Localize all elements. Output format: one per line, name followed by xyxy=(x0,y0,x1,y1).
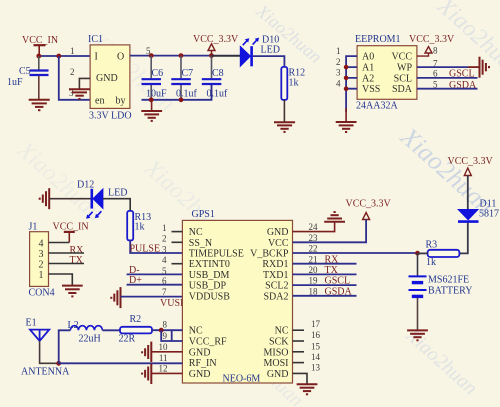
svg-text:12: 12 xyxy=(159,364,168,374)
inductor L2 xyxy=(68,320,103,345)
svg-text:5: 5 xyxy=(162,266,167,276)
svg-text:6: 6 xyxy=(162,276,167,286)
junction C8/VCC top xyxy=(209,53,214,58)
svg-text:LED: LED xyxy=(261,45,280,56)
wire C5 top lead xyxy=(38,56,40,70)
svg-text:SCK: SCK xyxy=(269,337,289,348)
svg-text:C8: C8 xyxy=(212,68,224,79)
svg-text:0.1uf: 0.1uf xyxy=(176,89,198,100)
stub pin2 SS_N xyxy=(172,241,183,243)
junction pin8 xyxy=(159,328,164,333)
capacitor C8 xyxy=(202,56,228,100)
svg-text:22R: 22R xyxy=(119,334,136,345)
svg-text:en: en xyxy=(95,96,104,107)
wire pin13 GND to ground xyxy=(293,373,308,384)
capacitor C7 xyxy=(171,56,197,100)
svg-text:GND: GND xyxy=(189,369,211,380)
wire pin22 V_BCKP xyxy=(293,252,418,254)
wire WP to ground xyxy=(417,66,468,68)
svg-text:GND: GND xyxy=(267,227,289,238)
svg-text:TXD1: TXD1 xyxy=(263,270,289,281)
wire D12 to R13 xyxy=(103,199,130,211)
svg-text:VCC_3.3V: VCC_3.3V xyxy=(409,34,455,45)
svg-text:L2: L2 xyxy=(68,320,79,331)
svg-text:3: 3 xyxy=(336,68,341,78)
SECTION TOPRIGHT xyxy=(212,34,490,132)
wire pin23 VCC xyxy=(293,220,367,243)
SECTION TOPLEFT xyxy=(7,34,240,122)
svg-text:WP: WP xyxy=(397,63,412,74)
svg-text:C6: C6 xyxy=(152,68,164,79)
ground WP sideways xyxy=(480,57,490,78)
wire RF_IN pin11 xyxy=(59,362,183,364)
wire D- to pin5 xyxy=(127,273,183,275)
gps module GPS1 xyxy=(182,209,292,385)
SECTION RIGHT xyxy=(293,156,500,340)
svg-text:CON4: CON4 xyxy=(29,288,55,299)
pin numbers GPS right bottom xyxy=(311,319,321,372)
ground J1 xyxy=(62,286,83,297)
wire pin18 SDA2 xyxy=(293,295,357,297)
svg-text:1: 1 xyxy=(39,270,44,281)
svg-text:2: 2 xyxy=(70,67,75,77)
svg-text:USB_DM: USB_DM xyxy=(189,270,230,281)
ground below R12 xyxy=(274,122,295,132)
svg-text:0.1uf: 0.1uf xyxy=(207,89,229,100)
IC1 regulator xyxy=(88,34,132,122)
wire VCC_IN rail to IC1 pin1 xyxy=(39,55,90,57)
wire R12 to ground xyxy=(283,100,285,122)
wire J1 pin4 xyxy=(49,242,70,244)
EEPROM1 xyxy=(355,34,417,112)
svg-text:8: 8 xyxy=(433,46,438,56)
svg-text:VCC_3.3V: VCC_3.3V xyxy=(193,34,239,45)
svg-text:22uH: 22uH xyxy=(79,334,101,345)
svg-text:GND: GND xyxy=(96,73,118,84)
stub pin4 EXTINT0 xyxy=(172,263,183,265)
svg-text:E1: E1 xyxy=(26,318,37,329)
svg-text:USB_DP: USB_DP xyxy=(189,281,227,292)
svg-text:BATTERY: BATTERY xyxy=(428,286,472,297)
wire R3 to junction xyxy=(418,252,428,254)
wire pin10 GND xyxy=(151,351,182,353)
svg-text:ANTENNA: ANTENNA xyxy=(21,367,70,378)
wire D11 to R3 xyxy=(460,223,468,254)
SECTION BOTTOM xyxy=(21,314,182,384)
ground GPS pin13 xyxy=(297,384,318,394)
svg-text:RF_IN: RF_IN xyxy=(189,358,217,369)
svg-text:VCC_RF: VCC_RF xyxy=(189,337,227,348)
svg-text:O: O xyxy=(117,52,124,63)
svg-text:LED: LED xyxy=(108,188,127,199)
svg-text:10: 10 xyxy=(159,342,169,352)
svg-text:4: 4 xyxy=(336,78,341,88)
svg-text:23: 23 xyxy=(309,233,319,243)
svg-text:SCL: SCL xyxy=(394,73,412,84)
svg-text:A1: A1 xyxy=(362,63,374,74)
pin numbers GPS right top xyxy=(309,222,319,296)
svg-text:11: 11 xyxy=(159,353,168,363)
svg-text:GND: GND xyxy=(267,369,289,380)
stub pin17 NC xyxy=(293,329,305,331)
wire D+ to pin6 xyxy=(127,284,183,286)
svg-text:3: 3 xyxy=(162,244,167,254)
svg-text:VDDUSB: VDDUSB xyxy=(189,291,230,302)
svg-text:4: 4 xyxy=(162,255,167,265)
svg-text:1k: 1k xyxy=(426,257,436,268)
wire bus to ground xyxy=(345,108,347,122)
svg-text:R2: R2 xyxy=(130,314,142,325)
svg-text:MS621FE: MS621FE xyxy=(428,275,469,286)
stub pin16 SCK xyxy=(293,340,305,342)
svg-text:7: 7 xyxy=(162,287,167,297)
svg-text:2: 2 xyxy=(39,259,44,270)
power VCC_3.3V top xyxy=(193,34,239,56)
antenna E1 xyxy=(21,318,70,378)
junction C7 bottom xyxy=(179,97,184,102)
junction V_BCKP xyxy=(415,251,420,256)
svg-text:VCC: VCC xyxy=(268,238,289,249)
wire SDA xyxy=(417,88,478,90)
wire pin12 GND xyxy=(151,372,182,374)
ground VUSB sideways xyxy=(111,287,120,308)
svg-text:MOSI: MOSI xyxy=(263,358,288,369)
svg-text:RXD1: RXD1 xyxy=(262,259,288,270)
wire D10 to R12 xyxy=(253,56,285,67)
power VCC_3.3V D11 xyxy=(448,156,494,176)
power VCC_3.3V EEPROM xyxy=(409,34,455,56)
junction VCC_IN/C5 xyxy=(36,54,41,59)
ground D12 sideways xyxy=(40,188,50,209)
svg-text:I: I xyxy=(95,52,98,63)
wire battery to ground xyxy=(417,298,419,330)
diode D11 schottky xyxy=(458,199,499,222)
svg-text:16: 16 xyxy=(311,330,321,340)
power VCC_3.3V GPS VCC xyxy=(346,199,392,220)
svg-text:2: 2 xyxy=(336,57,341,67)
wire J1 pin1 to ground xyxy=(49,274,73,285)
junction antenna xyxy=(56,361,61,366)
ground pin10 sideways xyxy=(142,342,151,362)
wire VUSB to pin7 xyxy=(121,296,183,298)
connector J1 xyxy=(29,222,55,299)
wire EEPROM address bus xyxy=(346,56,357,112)
power VCC_IN xyxy=(22,35,58,56)
wire SCL xyxy=(417,77,478,79)
wire junction up to L2 xyxy=(59,330,71,363)
svg-text:1k: 1k xyxy=(135,222,145,233)
wire antenna stem xyxy=(40,341,59,363)
junction en branch xyxy=(56,54,61,59)
wire IC1 pin2 hook xyxy=(79,78,90,88)
svg-text:3.3V LDO: 3.3V LDO xyxy=(89,111,132,122)
svg-text:4: 4 xyxy=(39,238,44,249)
wire pin21 RXD1 xyxy=(293,263,357,265)
svg-text:17: 17 xyxy=(311,319,321,329)
svg-text:5817: 5817 xyxy=(479,209,499,220)
svg-text:1: 1 xyxy=(336,46,341,56)
svg-text:C7: C7 xyxy=(182,68,194,79)
svg-text:D12: D12 xyxy=(77,180,94,191)
capacitor C6 xyxy=(142,56,168,100)
svg-text:RX: RX xyxy=(70,245,85,256)
svg-text:SDA: SDA xyxy=(392,84,413,95)
ground pin12 sideways xyxy=(142,364,151,384)
svg-text:VCC_3.3V: VCC_3.3V xyxy=(346,199,392,210)
ground battery xyxy=(407,330,428,340)
svg-text:1: 1 xyxy=(70,46,75,56)
junction VSS xyxy=(344,86,349,91)
wire ground to D12 xyxy=(49,198,91,200)
power VCC_IN J1 xyxy=(53,222,89,243)
stub pin1 NC xyxy=(172,231,183,233)
wire R13 to PULSE xyxy=(130,240,182,253)
wire J1 pin2 TX xyxy=(49,263,85,265)
svg-text:14: 14 xyxy=(311,352,321,362)
svg-text:24: 24 xyxy=(309,222,319,232)
svg-text:1: 1 xyxy=(162,223,167,233)
svg-text:MISO: MISO xyxy=(263,347,288,358)
svg-text:15: 15 xyxy=(311,341,321,351)
capacitor C5 xyxy=(7,66,49,88)
svg-text:R3: R3 xyxy=(426,240,438,251)
LED D10 xyxy=(240,35,280,67)
pin numbers GPS left top xyxy=(162,223,167,297)
resistor R3 xyxy=(426,240,460,268)
ground below caps xyxy=(141,111,162,121)
svg-text:PULSE: PULSE xyxy=(130,244,161,255)
svg-text:1k: 1k xyxy=(289,78,299,89)
wire en branch down xyxy=(59,56,90,100)
ground GPS pin24 flipped xyxy=(324,212,345,222)
wire L2 to R2 xyxy=(102,329,120,331)
svg-text:A2: A2 xyxy=(362,73,374,84)
wire caps bottom rail xyxy=(142,85,212,100)
wire IC1 output rail xyxy=(130,55,240,57)
svg-text:SCL2: SCL2 xyxy=(265,281,288,292)
svg-text:V_BCKP: V_BCKP xyxy=(250,249,289,260)
svg-text:1uF: 1uF xyxy=(7,77,23,88)
svg-text:EEPROM1: EEPROM1 xyxy=(355,34,401,45)
svg-text:3: 3 xyxy=(39,249,44,260)
svg-text:NEO-6M: NEO-6M xyxy=(223,374,261,385)
wire pin19 SCL2 xyxy=(293,284,357,286)
wire ground stem caps xyxy=(151,100,153,111)
svg-text:NC: NC xyxy=(275,326,289,337)
svg-text:IC1: IC1 xyxy=(88,34,103,45)
junction C6 top xyxy=(149,53,154,58)
svg-text:VSS: VSS xyxy=(362,84,380,95)
resistor R2 xyxy=(119,314,153,345)
wire junction to battery xyxy=(417,253,419,275)
svg-text:TX: TX xyxy=(70,255,84,266)
stub pin14 MOSI xyxy=(293,362,305,364)
svg-text:21: 21 xyxy=(309,254,318,264)
svg-text:SDA2: SDA2 xyxy=(263,291,288,302)
wire J1 pin3 RX xyxy=(49,252,85,254)
ground below C5 xyxy=(29,100,50,110)
ground IC1 pin2 xyxy=(69,89,90,99)
junction C6 bottom xyxy=(149,97,154,102)
svg-text:EXTINT0: EXTINT0 xyxy=(189,259,230,270)
svg-text:VCC_3.3V: VCC_3.3V xyxy=(448,156,494,167)
wire R2 to pin8 xyxy=(152,329,182,331)
pin numbers GPS left bottom xyxy=(159,319,169,373)
svg-text:TIMEPULSE: TIMEPULSE xyxy=(189,249,244,260)
svg-text:10uF: 10uF xyxy=(146,89,167,100)
svg-text:13: 13 xyxy=(311,363,321,373)
wire VCC rail to D10 xyxy=(212,55,241,57)
svg-text:8: 8 xyxy=(163,319,168,329)
svg-text:NC: NC xyxy=(189,227,203,238)
svg-text:J1: J1 xyxy=(29,222,38,233)
svg-text:GPS1: GPS1 xyxy=(192,209,215,220)
svg-text:2: 2 xyxy=(162,234,167,244)
SECTION MIDLEFT xyxy=(29,180,188,310)
resistor R13 xyxy=(127,211,151,241)
wire pin20 TXD1 xyxy=(293,273,357,275)
svg-text:A0: A0 xyxy=(362,52,374,63)
svg-text:C5: C5 xyxy=(19,66,31,77)
battery BT MS621FE xyxy=(409,275,473,297)
wire C5 bottom lead xyxy=(38,76,40,100)
svg-text:24AA32A: 24AA32A xyxy=(356,101,398,112)
junction A2 xyxy=(344,76,349,81)
wire VCC to D11 xyxy=(467,176,469,210)
svg-text:VCC: VCC xyxy=(391,52,412,63)
LED D12 xyxy=(77,180,127,219)
SECTION GPS xyxy=(159,209,321,394)
stub pin15 MISO xyxy=(293,351,305,353)
svg-text:by: by xyxy=(116,96,126,107)
svg-text:GND: GND xyxy=(189,347,211,358)
junction A1 xyxy=(344,65,349,70)
svg-text:SS_N: SS_N xyxy=(189,238,212,249)
ground below EEPROM xyxy=(336,122,357,132)
junction C7 top xyxy=(179,53,184,58)
wire pin8-pin9 loop xyxy=(161,330,182,341)
wire pin24 GND up xyxy=(293,222,335,232)
svg-text:9: 9 xyxy=(163,331,168,341)
svg-text:NC: NC xyxy=(189,326,203,337)
resistor R12 xyxy=(281,67,305,100)
